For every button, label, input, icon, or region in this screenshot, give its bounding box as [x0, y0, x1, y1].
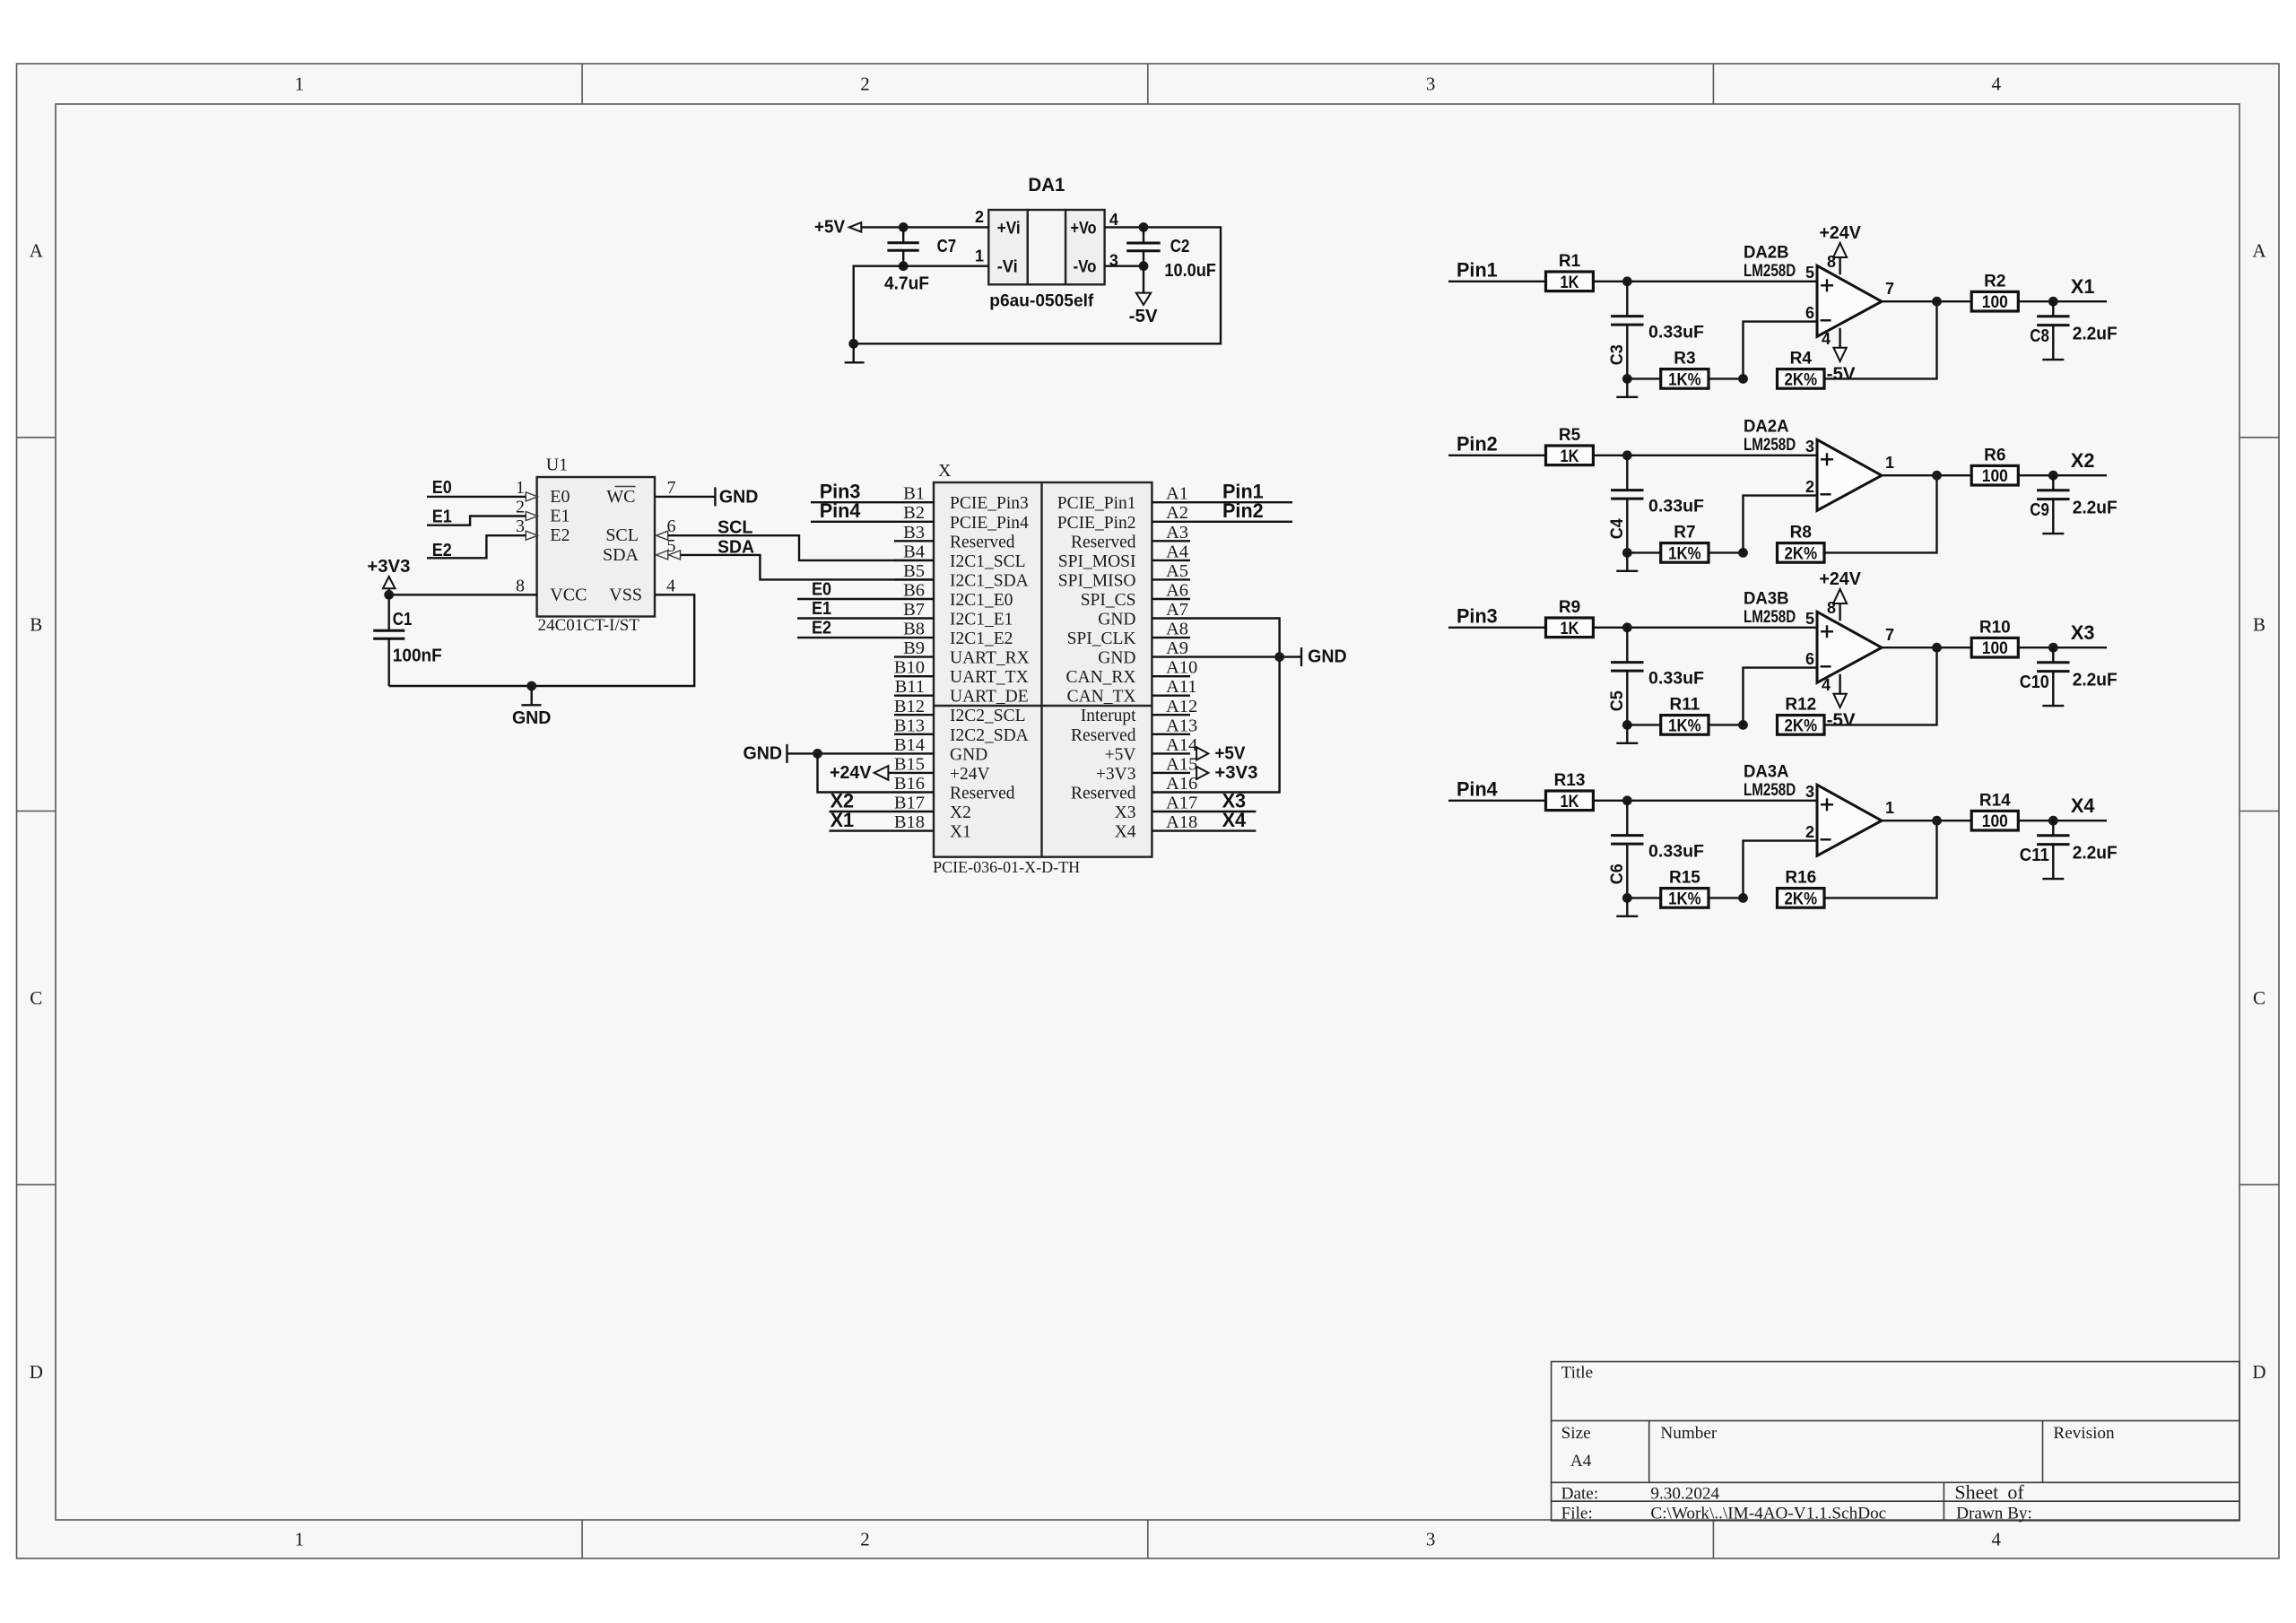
- pin A13: [1071, 716, 1197, 745]
- svg-text:X1: X1: [950, 823, 971, 842]
- pin B3: [894, 523, 1015, 552]
- svg-text:-5V: -5V: [1827, 710, 1857, 730]
- svg-text:A17: A17: [1166, 794, 1197, 813]
- svg-text:3: 3: [516, 516, 525, 536]
- svg-text:R6: R6: [1984, 446, 2005, 464]
- wire fb: [1627, 551, 1660, 553]
- resistor R6: [1971, 446, 2018, 486]
- power port +3V3: [1196, 763, 1257, 783]
- pin B11: [894, 677, 1029, 707]
- svg-text:Reserved: Reserved: [1071, 785, 1136, 803]
- wire X2: [830, 811, 895, 812]
- svg-text:GND: GND: [744, 743, 783, 763]
- pin B1: [894, 484, 1029, 514]
- IC U1 24C01CT: [537, 456, 655, 635]
- resistor R13: [1546, 771, 1594, 811]
- capacitor C6: [1608, 801, 1704, 898]
- svg-text:I2C1_E0: I2C1_E0: [950, 591, 1013, 610]
- pin B14: [894, 735, 987, 765]
- resistor R14: [1971, 791, 2018, 831]
- wire to op-amp minus: [1744, 322, 1818, 379]
- resistor R10: [1971, 618, 2018, 658]
- svg-text:X1: X1: [831, 809, 855, 831]
- svg-text:+3V3: +3V3: [1096, 765, 1136, 784]
- svg-text:E1: E1: [432, 508, 452, 527]
- svg-text:X4: X4: [1222, 809, 1247, 831]
- wire X4: [1190, 829, 1256, 831]
- title block: [1552, 1362, 2239, 1521]
- wire E2: [797, 637, 894, 638]
- wire fb mid: [1709, 897, 1744, 898]
- wire E1: [427, 516, 526, 525]
- svg-text:C3: C3: [1608, 344, 1627, 365]
- svg-text:E0: E0: [812, 580, 831, 600]
- wire to op-amp minus: [1744, 841, 1818, 898]
- capacitor C9: [2030, 475, 2117, 534]
- svg-text:Pin2: Pin2: [1222, 499, 1264, 522]
- svg-text:A4: A4: [1166, 542, 1188, 561]
- svg-text:File:: File:: [1561, 1505, 1593, 1523]
- wire fb mid: [1709, 551, 1744, 553]
- svg-text:CAN_TX: CAN_TX: [1067, 688, 1136, 707]
- node output: [1932, 297, 1942, 307]
- svg-text:1: 1: [295, 74, 305, 95]
- node A9: [1274, 652, 1284, 662]
- svg-text:2.2uF: 2.2uF: [2073, 325, 2118, 344]
- pin arrow SCL: [657, 531, 668, 540]
- svg-text:A15: A15: [1166, 754, 1197, 774]
- capacitor C1: [373, 595, 442, 686]
- svg-text:C8: C8: [2030, 326, 2049, 346]
- svg-text:R11: R11: [1669, 696, 1700, 715]
- svg-text:PCIE_Pin4: PCIE_Pin4: [950, 514, 1029, 533]
- pin B8: [894, 620, 1013, 649]
- capacitor C3: [1608, 282, 1704, 379]
- svg-text:+24V: +24V: [950, 765, 990, 784]
- node X1: [2048, 297, 2058, 307]
- pin A10: [1065, 658, 1197, 688]
- wire -Vi net: [854, 227, 1221, 343]
- node ground: [526, 681, 536, 691]
- capacitor C5: [1608, 628, 1704, 725]
- pin B15: [894, 754, 990, 784]
- wire C1/VSS bottom: [389, 595, 695, 686]
- power port +24V: [1819, 223, 1861, 275]
- svg-text:Reserved: Reserved: [950, 533, 1015, 551]
- svg-text:B3: B3: [903, 523, 925, 542]
- wire E1: [797, 617, 894, 619]
- svg-text:1K%: 1K%: [1668, 716, 1701, 735]
- svg-text:4: 4: [1822, 676, 1831, 694]
- resistor R1: [1546, 252, 1594, 292]
- wire to op-amp +: [1593, 800, 1817, 802]
- capacitor C2: [1126, 227, 1216, 281]
- wire input: [1448, 281, 1546, 282]
- svg-text:3: 3: [1805, 438, 1814, 456]
- svg-text:-5V: -5V: [1129, 307, 1159, 326]
- svg-text:2: 2: [975, 208, 984, 226]
- node X3: [2048, 643, 2058, 653]
- power port GND: [512, 686, 552, 728]
- pin A2: [1057, 503, 1190, 533]
- node fb mid: [1738, 720, 1748, 730]
- svg-text:C: C: [2253, 987, 2266, 1009]
- svg-text:R3: R3: [1674, 350, 1695, 369]
- svg-text:Sheet: Sheet: [1954, 1480, 1998, 1503]
- svg-text:Revision: Revision: [2053, 1424, 2115, 1443]
- svg-text:7: 7: [1885, 280, 1894, 298]
- svg-text:X2: X2: [2071, 449, 2095, 472]
- svg-text:100: 100: [1982, 293, 2008, 312]
- wire E2: [427, 535, 526, 558]
- power port +5V: [814, 218, 861, 238]
- svg-text:R7: R7: [1674, 524, 1695, 542]
- node ground corner: [848, 339, 858, 349]
- svg-text:Drawn By:: Drawn By:: [1956, 1505, 2032, 1523]
- svg-text:GND: GND: [1098, 649, 1135, 668]
- svg-text:100: 100: [1982, 639, 2008, 658]
- wire to X: [2018, 820, 2107, 821]
- svg-text:+24V: +24V: [830, 763, 872, 783]
- svg-text:Reserved: Reserved: [1071, 533, 1136, 551]
- wire input: [1448, 455, 1546, 456]
- svg-text:DA2B: DA2B: [1744, 242, 1789, 262]
- svg-text:4: 4: [1992, 74, 2002, 95]
- svg-text:C1: C1: [393, 610, 413, 629]
- svg-text:B17: B17: [894, 794, 925, 813]
- pin B7: [894, 600, 1013, 629]
- connector X PCIE-036: [933, 461, 1152, 876]
- pin B17: [894, 794, 971, 823]
- svg-text:PCIE_Pin3: PCIE_Pin3: [950, 494, 1029, 513]
- wire Pin2: [1190, 521, 1292, 523]
- svg-text:1: 1: [1885, 454, 1894, 472]
- wire to op-amp minus: [1744, 668, 1818, 725]
- op-amp DA3B: [1744, 588, 1882, 682]
- svg-text:B7: B7: [903, 600, 925, 620]
- resistor R12: [1778, 696, 1825, 736]
- svg-text:B11: B11: [895, 677, 925, 697]
- svg-text:A3: A3: [1166, 523, 1188, 542]
- svg-text:-Vo: -Vo: [1074, 258, 1097, 277]
- wire VCC: [389, 594, 537, 595]
- svg-text:GND: GND: [950, 745, 987, 764]
- svg-text:-5V: -5V: [1827, 364, 1857, 384]
- pin arrows SDA: [657, 551, 668, 560]
- svg-text:9.30.2024: 9.30.2024: [1650, 1484, 1719, 1503]
- svg-text:2: 2: [1805, 823, 1814, 841]
- svg-text:I2C1_SDA: I2C1_SDA: [950, 571, 1029, 590]
- wire output: [1882, 820, 1971, 821]
- wire WC to GND: [655, 496, 715, 498]
- svg-text:LM258D: LM258D: [1744, 435, 1796, 455]
- svg-text:100: 100: [1982, 467, 2008, 486]
- wire to op-amp minus: [1744, 496, 1818, 553]
- svg-text:SCL: SCL: [605, 525, 639, 545]
- svg-text:Title: Title: [1561, 1364, 1594, 1383]
- svg-text:C11: C11: [2020, 846, 2049, 865]
- svg-text:B10: B10: [894, 658, 925, 678]
- svg-text:2K%: 2K%: [1785, 716, 1818, 735]
- svg-text:DA3B: DA3B: [1744, 588, 1789, 608]
- svg-text:I2C1_E1: I2C1_E1: [950, 611, 1013, 629]
- svg-text:1K%: 1K%: [1668, 890, 1701, 908]
- svg-text:LM258D: LM258D: [1744, 780, 1796, 800]
- svg-text:A4: A4: [1570, 1452, 1592, 1471]
- svg-text:X2: X2: [950, 803, 971, 822]
- svg-text:UART_DE: UART_DE: [950, 688, 1029, 707]
- pin A5: [1058, 561, 1190, 591]
- node fb mid: [1738, 374, 1748, 384]
- svg-text:Reserved: Reserved: [950, 785, 1015, 803]
- svg-text:A2: A2: [1166, 503, 1188, 523]
- resistor R5: [1546, 426, 1594, 466]
- node output: [1932, 471, 1942, 481]
- svg-text:B14: B14: [894, 735, 925, 755]
- ground bar DA1: [845, 343, 865, 362]
- wire SDA: [681, 555, 935, 580]
- svg-text:1K: 1K: [1561, 273, 1579, 292]
- power port +24V: [1819, 569, 1861, 621]
- node fb mid: [1738, 893, 1748, 903]
- svg-text:LM258D: LM258D: [1744, 261, 1796, 281]
- svg-text:Date:: Date:: [1561, 1484, 1599, 1503]
- svg-text:C: C: [30, 987, 42, 1009]
- pin A4: [1058, 542, 1190, 571]
- svg-text:E1: E1: [812, 599, 831, 619]
- svg-text:X4: X4: [1115, 823, 1136, 842]
- svg-text:7: 7: [667, 478, 676, 498]
- svg-text:1K: 1K: [1561, 620, 1579, 638]
- svg-text:R12: R12: [1785, 696, 1816, 715]
- power port GND: [1301, 647, 1347, 667]
- svg-text:+Vi: +Vi: [997, 219, 1021, 238]
- wire Pin4: [811, 521, 894, 523]
- node VCC/C1: [384, 590, 394, 600]
- svg-text:Interupt: Interupt: [1081, 707, 1136, 725]
- node C7 bottom: [899, 261, 909, 271]
- node output: [1932, 816, 1942, 826]
- resistor R15: [1661, 869, 1709, 909]
- svg-text:3: 3: [1426, 1529, 1436, 1550]
- svg-text:A7: A7: [1166, 600, 1188, 620]
- ground bar: [1616, 898, 1638, 916]
- svg-text:+5V: +5V: [1214, 743, 1246, 763]
- svg-text:Pin4: Pin4: [1457, 777, 1498, 800]
- node feedback: [1622, 893, 1632, 903]
- svg-text:A9: A9: [1166, 638, 1188, 658]
- pin A3: [1071, 523, 1190, 552]
- wire A9 to GND: [1190, 655, 1301, 657]
- svg-text:PCIE_Pin1: PCIE_Pin1: [1057, 494, 1136, 513]
- svg-text:Pin2: Pin2: [1457, 432, 1498, 455]
- wire output: [1882, 300, 1971, 302]
- svg-text:1K: 1K: [1561, 447, 1579, 466]
- wire output: [1882, 647, 1971, 648]
- resistor R11: [1661, 696, 1709, 736]
- svg-text:I2C1_SCL: I2C1_SCL: [950, 552, 1026, 571]
- svg-text:E0: E0: [550, 487, 570, 507]
- svg-text:C7: C7: [937, 237, 957, 256]
- svg-text:WC: WC: [606, 487, 635, 507]
- svg-text:R16: R16: [1785, 869, 1816, 888]
- pin A12: [1081, 697, 1198, 725]
- resistor R16: [1778, 869, 1825, 909]
- node C2 bottom: [1139, 261, 1149, 271]
- wire -Vo to C2: [1105, 265, 1144, 267]
- wire fb: [1627, 724, 1660, 725]
- pin A17: [1115, 794, 1198, 823]
- svg-text:1K: 1K: [1561, 793, 1579, 811]
- wire output: [1882, 474, 1971, 476]
- svg-text:6: 6: [1805, 304, 1814, 322]
- svg-text:-Vi: -Vi: [997, 258, 1018, 277]
- wire fb to output: [1824, 301, 1937, 378]
- svg-text:10.0uF: 10.0uF: [1164, 261, 1216, 281]
- op-amp DA2A: [1744, 416, 1882, 510]
- wire X1: [830, 829, 895, 831]
- svg-text:3: 3: [1805, 783, 1814, 801]
- pin A15: [1096, 754, 1197, 784]
- svg-text:B: B: [2253, 614, 2266, 636]
- pin A7: [1098, 600, 1190, 629]
- pin A9: [1098, 638, 1190, 668]
- svg-text:A16: A16: [1166, 774, 1197, 794]
- svg-text:A5: A5: [1166, 561, 1188, 581]
- svg-text:Size: Size: [1561, 1424, 1591, 1443]
- svg-text:100: 100: [1982, 812, 2008, 831]
- svg-text:2.2uF: 2.2uF: [2073, 499, 2118, 518]
- svg-text:R1: R1: [1559, 252, 1581, 271]
- svg-text:C5: C5: [1608, 690, 1627, 711]
- wire Pin1: [1190, 501, 1292, 503]
- resistor R4: [1778, 350, 1825, 390]
- svg-text:2K%: 2K%: [1785, 370, 1818, 389]
- node X4: [2048, 816, 2058, 826]
- svg-text:7: 7: [1885, 626, 1894, 644]
- svg-text:A: A: [30, 240, 44, 262]
- op-amp DA2B: [1744, 242, 1882, 336]
- wire to op-amp +: [1593, 281, 1817, 282]
- pin B5: [894, 561, 1029, 591]
- svg-text:0.33uF: 0.33uF: [1648, 323, 1704, 342]
- svg-text:2K%: 2K%: [1785, 544, 1818, 563]
- pin arrow: [526, 512, 537, 521]
- ground bar: [1616, 552, 1638, 570]
- svg-text:B18: B18: [894, 812, 925, 832]
- svg-text:A1: A1: [1166, 484, 1188, 504]
- wire input: [1448, 800, 1546, 802]
- power port +24V: [830, 763, 888, 783]
- svg-text:4: 4: [1822, 330, 1831, 348]
- svg-text:R8: R8: [1790, 524, 1812, 542]
- svg-text:+24V: +24V: [1819, 223, 1861, 243]
- svg-text:SDA: SDA: [603, 545, 639, 565]
- pin arrow: [526, 492, 537, 501]
- capacitor C4: [1608, 456, 1704, 553]
- svg-text:Number: Number: [1660, 1424, 1717, 1443]
- svg-text:1: 1: [516, 478, 525, 498]
- node feedback: [1622, 548, 1632, 558]
- svg-text:Pin3: Pin3: [1457, 604, 1498, 627]
- node input: [1622, 276, 1632, 286]
- svg-text:B: B: [30, 614, 42, 636]
- svg-text:1: 1: [1885, 799, 1894, 817]
- wire fb to output: [1824, 475, 1937, 552]
- wire E0: [797, 598, 894, 600]
- wire fb to output: [1824, 647, 1937, 725]
- wire fb to output: [1824, 820, 1937, 898]
- svg-text:D: D: [2252, 1361, 2266, 1383]
- svg-text:CAN_RX: CAN_RX: [1065, 668, 1135, 687]
- svg-text:2: 2: [860, 74, 870, 95]
- svg-text:X4: X4: [2071, 794, 2095, 817]
- power port GND (bar): [715, 487, 758, 507]
- svg-text:4: 4: [1992, 1529, 2002, 1550]
- wire A7/A16 loop: [1190, 619, 1280, 793]
- pin A11: [1067, 677, 1197, 707]
- svg-text:I2C2_SCL: I2C2_SCL: [950, 707, 1026, 725]
- node X2: [2048, 471, 2058, 481]
- power port +3V3: [367, 557, 410, 595]
- svg-text:B9: B9: [903, 638, 925, 658]
- svg-text:Pin4: Pin4: [820, 499, 861, 522]
- op-amp DA3A: [1744, 761, 1882, 855]
- pin A14: [1105, 735, 1198, 765]
- wire to op-amp +: [1593, 627, 1817, 629]
- pin A16: [1071, 774, 1197, 803]
- power port -5V: [1129, 266, 1159, 326]
- svg-text:E2: E2: [550, 525, 570, 545]
- svg-text:D: D: [30, 1361, 43, 1383]
- resistor R3: [1661, 350, 1709, 390]
- svg-text:VCC: VCC: [550, 585, 587, 604]
- wire Pin3: [811, 501, 894, 503]
- svg-text:E0: E0: [432, 478, 452, 498]
- svg-text:C4: C4: [1608, 518, 1627, 539]
- pin B4: [894, 542, 1026, 571]
- svg-text:5: 5: [1805, 264, 1814, 282]
- svg-text:R9: R9: [1559, 598, 1580, 617]
- wire fb: [1627, 378, 1660, 379]
- pin B13: [894, 716, 1029, 745]
- svg-text:6: 6: [1805, 650, 1814, 668]
- svg-text:E2: E2: [812, 619, 831, 638]
- svg-text:2: 2: [1805, 478, 1814, 496]
- resistor R2: [1971, 272, 2018, 312]
- svg-text:1K%: 1K%: [1668, 370, 1701, 389]
- svg-text:GND: GND: [1308, 647, 1347, 667]
- svg-text:E1: E1: [550, 507, 570, 526]
- svg-text:2.2uF: 2.2uF: [2073, 844, 2118, 864]
- wire SCL: [668, 535, 934, 560]
- pin B9: [894, 638, 1030, 668]
- svg-text:R5: R5: [1559, 426, 1581, 445]
- svg-text:0.33uF: 0.33uF: [1648, 842, 1704, 861]
- wire +5V to +Vi: [861, 226, 988, 228]
- svg-text:+5V: +5V: [814, 218, 846, 238]
- node input: [1622, 795, 1632, 805]
- capacitor C7: [884, 227, 956, 293]
- svg-text:2.2uF: 2.2uF: [2073, 671, 2118, 690]
- resistor R7: [1661, 524, 1709, 564]
- capacitor C11: [2020, 820, 2118, 879]
- wire B14 to B16: [818, 753, 895, 792]
- wire E0: [427, 496, 526, 498]
- svg-text:A8: A8: [1166, 620, 1188, 639]
- svg-text:SPI_MISO: SPI_MISO: [1058, 571, 1136, 590]
- svg-text:X3: X3: [2071, 621, 2095, 644]
